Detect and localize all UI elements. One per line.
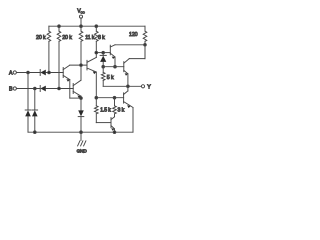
resistor R6 5k bbox=[101, 67, 105, 87]
resistor R4 8k bbox=[95, 26, 99, 52]
node: D6 / rail bbox=[80, 131, 83, 134]
svg-text:3 k: 3 k bbox=[118, 108, 125, 114]
svg-text:20 k: 20 k bbox=[36, 35, 46, 41]
wire: D5 to Q5 base bbox=[103, 66, 124, 68]
output Y terminal bbox=[141, 85, 144, 88]
node: Q5 emitter / output bbox=[127, 85, 130, 88]
node: D5 anode / 5k junction bbox=[102, 65, 105, 68]
svg-text:Y: Y bbox=[147, 84, 151, 90]
node: 120 / collectors junction bbox=[144, 44, 147, 47]
diode D5 (level shift) bbox=[100, 53, 106, 67]
diode D6 (Q1/Q2 emitters to ground) bbox=[78, 98, 84, 132]
svg-text:8 k: 8 k bbox=[98, 35, 105, 41]
resistor R5 120 bbox=[143, 26, 147, 58]
node: emitters junction bbox=[80, 97, 83, 100]
transistor Q3 (phase splitter) bbox=[87, 53, 96, 98]
node: D5 junction bbox=[102, 51, 105, 54]
svg-text:GND: GND bbox=[77, 148, 88, 153]
input B terminal bbox=[13, 87, 40, 90]
node: rail junction Vcc/11k bbox=[80, 25, 83, 28]
diode D2 input B clamp bbox=[32, 89, 38, 133]
wire: 1.5k to Q6 base bbox=[96, 122, 111, 124]
resistor R7 1.5k bbox=[95, 98, 99, 123]
svg-text:120: 120 bbox=[129, 32, 138, 38]
wire: Q4 collector to 120 bbox=[115, 44, 145, 46]
node: rail junction 8k bbox=[95, 25, 98, 28]
wire: 8k / Q3 collector to Q4 base bbox=[96, 52, 110, 54]
input A terminal bbox=[13, 71, 40, 74]
transistor Q7 (output pull-down) bbox=[124, 86, 133, 132]
node: rail junction 20k B bbox=[58, 25, 61, 28]
Vcc terminal bbox=[79, 15, 82, 26]
transistor Q5 (Darlington lower) bbox=[124, 59, 130, 87]
svg-text:A: A bbox=[9, 71, 13, 77]
svg-text:11 k: 11 k bbox=[85, 35, 95, 41]
svg-text:5 k: 5 k bbox=[107, 75, 114, 81]
diode D1 input A clamp bbox=[25, 73, 31, 133]
svg-text:VCC: VCC bbox=[77, 8, 85, 14]
ground bbox=[78, 132, 86, 146]
node: E / 3k junction bbox=[113, 96, 116, 99]
node: E / 1.5k junction bbox=[95, 96, 98, 99]
svg-text:1.5 k: 1.5 k bbox=[100, 108, 111, 114]
wire: output line bbox=[103, 85, 141, 87]
wire: Q5 collector to 120 bottom bbox=[129, 45, 145, 59]
svg-text:20 k: 20 k bbox=[62, 35, 72, 41]
transistor Q2 (input B) bbox=[73, 65, 81, 98]
resistor R1 20k (input A pull-up) bbox=[47, 26, 51, 72]
wire: Q1 emitter to Q2 emitter bbox=[70, 97, 81, 99]
node: B clamp junction bbox=[34, 87, 37, 90]
node: Q6 emitter / rail bbox=[113, 131, 116, 134]
node: B / 20k junction bbox=[58, 87, 61, 90]
node: 8k junction bbox=[95, 51, 98, 54]
diode D3 input A series (cathode left) bbox=[40, 70, 63, 76]
node: A clamp junction bbox=[27, 71, 30, 74]
transistor Q4 (Darlington upper) bbox=[110, 45, 115, 67]
resistor R8 3k bbox=[113, 98, 117, 117]
diode D4 input B series (cathode left) bbox=[40, 86, 73, 92]
wire: Q1/Q2 collectors to Q3 base node bbox=[70, 64, 87, 66]
node: A / 20k junction bbox=[48, 71, 51, 74]
wire: top Vcc rail bbox=[49, 25, 145, 27]
node: 11k / collectors junction bbox=[80, 64, 83, 67]
node: Q4 emitter / Q5 base junction bbox=[114, 65, 117, 68]
node: D2 / rail bbox=[34, 131, 37, 134]
transistor Q1 (input A) bbox=[63, 65, 70, 98]
wire: emitter node E line bbox=[96, 97, 123, 99]
resistor R3 11k bbox=[79, 26, 83, 65]
svg-text:B: B bbox=[9, 87, 13, 93]
wire: ground rail bbox=[28, 131, 133, 133]
resistor R2 20k (input B pull-up) bbox=[57, 26, 61, 88]
transistor Q6 (squaring network) bbox=[111, 117, 115, 132]
